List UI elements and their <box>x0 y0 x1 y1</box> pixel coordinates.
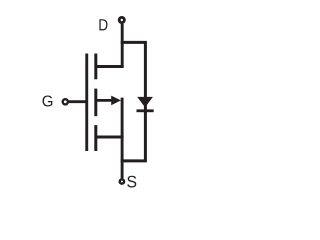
label S <box>127 176 136 188</box>
wire: diode branch (top horizontal, vertical through diode, bottom horizontal) <box>121 42 146 160</box>
MOSFET Q1 gate line <box>85 54 88 152</box>
wire: gate horizontal from G terminal to gate line <box>69 100 87 103</box>
MOSFET Q1 body arrow (pointing right, P-channel) <box>111 96 121 106</box>
wire: drain vertical from D terminal to drain stub <box>121 24 124 68</box>
wire: source bus vertical from body-arrow junction down to S terminal <box>121 98 124 179</box>
diode D1 cathode bar <box>137 109 154 112</box>
MOSFET Q1 drain stub <box>96 65 124 68</box>
MOSFET Q1 channel segment (source) <box>94 125 97 151</box>
diode D1 triangle (pointing down) <box>137 97 153 108</box>
terminal D (open circle) <box>119 17 124 22</box>
MOSFET Q1 channel segment (drain) <box>94 54 97 80</box>
label G <box>43 96 53 107</box>
terminal G (open circle) <box>63 99 68 104</box>
MOSFET Q1 source stub <box>96 135 124 138</box>
terminal S (open circle) <box>120 179 124 183</box>
MOSFET Q1 channel segment (body) <box>94 89 97 117</box>
label D <box>99 19 107 30</box>
MOSFET Q1 body stub <box>96 99 114 102</box>
